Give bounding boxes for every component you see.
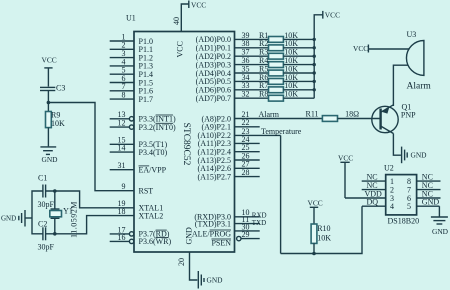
pin 10 P3.0 RXD — [194, 208, 266, 221]
svg-text:(A10)P2.2: (A10)P2.2 — [197, 131, 231, 140]
pin 5 P1.4 — [110, 66, 153, 79]
pin 32 P0.7 — [196, 90, 269, 103]
junction R10/DQ — [312, 252, 316, 256]
svg-text:C1: C1 — [38, 174, 47, 183]
pin 24 P2.3 — [198, 135, 260, 148]
wire C1 to XTAL1 pin 19 — [46, 191, 134, 208]
svg-text:(A15)P2.7: (A15)P2.7 — [197, 172, 231, 181]
ground symbol (pin 20) — [198, 271, 223, 289]
capacitor C3 — [40, 84, 65, 93]
svg-text:P3.4(T0): P3.4(T0) — [139, 148, 168, 157]
pin 1 U2 NC — [362, 173, 394, 186]
resistor R5 10K — [259, 64, 314, 76]
junction crystal top — [53, 189, 57, 193]
power VCC (U2 VDD) — [338, 154, 353, 199]
svg-text:R11: R11 — [306, 109, 319, 118]
svg-text:U3: U3 — [407, 30, 417, 39]
svg-text:21: 21 — [242, 110, 250, 119]
resistor R2 10K — [259, 39, 314, 51]
svg-text:GND: GND — [411, 151, 428, 160]
wire VCC to C3 — [47, 68, 49, 87]
svg-text:10K: 10K — [284, 90, 298, 99]
pin 36 P0.3 — [196, 56, 269, 69]
svg-text:DQ: DQ — [367, 198, 379, 207]
svg-text:RST: RST — [139, 187, 154, 196]
resistor R4 10K — [259, 56, 314, 68]
pin 29 PSEN — [211, 230, 259, 248]
pin 33 P0.6 — [196, 81, 269, 94]
svg-text:PSEN: PSEN — [211, 239, 231, 248]
svg-text:30pF: 30pF — [38, 200, 55, 209]
wire R9 to ground — [47, 128, 49, 147]
pin 19 XTAL1 — [118, 199, 164, 212]
wire U2 GND down — [438, 206, 440, 216]
svg-text:(A8)P2.0: (A8)P2.0 — [201, 114, 231, 123]
resistor R10 10K — [311, 224, 331, 243]
ground symbol (U2) — [431, 217, 449, 236]
wire VCC bus for R1-R8 — [313, 15, 323, 98]
pin 35 P0.4 — [196, 64, 269, 77]
svg-text:VCC: VCC — [42, 56, 57, 65]
svg-text:4: 4 — [390, 202, 394, 211]
pin 8 P1.7 — [110, 91, 153, 104]
wire C3 to node — [47, 91, 49, 112]
pin 15 P3.5(T1) — [110, 136, 168, 149]
capacitor C1 30pF — [38, 174, 55, 210]
svg-text:(AD7)P0.7: (AD7)P0.7 — [196, 94, 231, 103]
svg-text:(TXD)P3.1: (TXD)P3.1 — [195, 219, 231, 228]
buzzer U3 Alarm — [406, 30, 431, 92]
resistor R11 18ohm — [306, 109, 360, 121]
wire DQ bottom run — [281, 206, 362, 253]
pin 22 P2.1 — [201, 118, 259, 131]
svg-text:14: 14 — [118, 144, 126, 153]
svg-text:U2: U2 — [384, 164, 394, 173]
svg-text:30pF: 30pF — [38, 243, 55, 252]
svg-text:R8: R8 — [259, 90, 268, 99]
svg-text:P3.6(WR): P3.6(WR) — [139, 237, 172, 246]
pin 8 U2 NC — [407, 173, 441, 186]
pin 3 P1.2 — [110, 49, 153, 62]
wire VCC to buzzer — [368, 48, 408, 50]
pin 1 P1.0 — [110, 32, 153, 45]
wire node to RST pin 9 — [48, 103, 134, 191]
svg-text:VCC: VCC — [176, 41, 185, 57]
wire C2 to XTAL2 pin 18 — [46, 216, 134, 234]
wire VCC to R10 — [313, 207, 315, 224]
pin 34 P0.5 — [196, 73, 269, 86]
svg-text:40: 40 — [172, 17, 181, 25]
wire crystal leads — [54, 191, 56, 209]
wire rail tap to ground — [25, 217, 32, 219]
pin 9 RST — [122, 182, 154, 195]
pin 13 P3.3 INT1 — [110, 110, 176, 123]
pin 4 P1.3 — [110, 57, 153, 70]
svg-text:10K: 10K — [51, 119, 65, 128]
crystal Y1 11.0592M — [50, 201, 79, 238]
pin 37 P0.2 — [196, 48, 269, 61]
svg-text:8: 8 — [122, 91, 126, 100]
pin 26 P2.5 — [197, 151, 259, 164]
pin 2 U2 NC — [362, 181, 394, 194]
pin 21 P2.0 node Alarm — [201, 110, 322, 123]
svg-text:16: 16 — [118, 233, 126, 242]
power VCC (pull-up bus) — [323, 11, 340, 20]
junction node RST — [47, 101, 51, 105]
pin 25 P2.4 — [197, 143, 259, 156]
svg-text:TXD: TXD — [252, 219, 266, 227]
wire buzzer to Q1 emitter — [393, 65, 408, 106]
svg-text:VCC: VCC — [325, 11, 340, 20]
wire Temperature vertical — [280, 135, 282, 253]
power VCC (R10) — [308, 199, 323, 208]
svg-text:GND: GND — [1, 215, 16, 223]
svg-text:5: 5 — [407, 202, 411, 211]
svg-text:GND: GND — [422, 198, 440, 207]
IC U1 STC89C52 body — [126, 14, 235, 253]
svg-text:20: 20 — [177, 258, 186, 266]
svg-text:ALE/PROG: ALE/PROG — [192, 230, 231, 239]
pin 2 P1.1 — [110, 41, 153, 54]
transistor Q1 PNP — [372, 102, 416, 133]
svg-text:Alarm: Alarm — [407, 82, 432, 92]
pin 18 XTAL2 — [118, 207, 164, 220]
svg-text:VCC: VCC — [338, 154, 353, 163]
svg-text:11.0592M: 11.0592M — [70, 201, 79, 238]
resistor R1 10K — [259, 31, 314, 43]
wire R10 to DQ net — [313, 243, 315, 253]
svg-text:P3.2(INT0): P3.2(INT0) — [139, 123, 176, 132]
svg-text:18Ω: 18Ω — [345, 109, 359, 118]
svg-text:28: 28 — [242, 168, 250, 177]
pin 31 EA/VPP — [110, 161, 167, 174]
svg-text:R10: R10 — [317, 224, 330, 233]
pin 3 U2 VDD — [345, 189, 394, 202]
power VCC (buzzer) — [353, 44, 368, 53]
resistor R3 10K — [259, 48, 314, 60]
wire ground rail left of crystal — [32, 191, 43, 234]
svg-text:GND: GND — [207, 276, 224, 285]
svg-text:12: 12 — [118, 119, 126, 128]
resistor R8 10K — [259, 90, 314, 102]
svg-text:C2: C2 — [38, 220, 47, 229]
resistor R6 10K — [259, 73, 314, 85]
svg-text:29: 29 — [242, 230, 250, 239]
resistor R9 10K — [46, 111, 66, 129]
pin 16 P3.6 WR — [110, 233, 172, 246]
svg-text:EA/VPP: EA/VPP — [139, 166, 167, 175]
IC U2 DS18B20 body — [384, 164, 419, 226]
svg-text:DS18B20: DS18B20 — [388, 217, 420, 226]
pin 30 ALE/PROG — [192, 222, 260, 238]
pin 39 P0.0 — [196, 31, 269, 44]
ground symbol (Q1) — [402, 147, 428, 164]
pin 27 P2.6 — [197, 160, 259, 173]
svg-text:STC89C52: STC89C52 — [181, 123, 191, 166]
svg-text:XTAL2: XTAL2 — [139, 211, 164, 220]
svg-text:PNP: PNP — [401, 110, 416, 119]
power VCC (pin 40) — [189, 0, 206, 9]
pin 7 P1.6 — [110, 82, 153, 95]
pin 40 VCC wire — [172, 4, 189, 58]
pin 6 P1.5 — [110, 74, 153, 87]
svg-text:GND: GND — [42, 155, 59, 164]
power VCC (reset) — [42, 56, 57, 68]
wire R11 to Q1 base — [338, 118, 381, 120]
svg-text:32: 32 — [242, 90, 250, 99]
junction crystal bottom — [53, 232, 57, 236]
svg-text:GND: GND — [432, 227, 449, 236]
svg-text:U1: U1 — [126, 14, 136, 23]
ground symbol (crystal) — [1, 210, 25, 227]
svg-text:9: 9 — [122, 182, 126, 191]
capacitor C2 30pF — [38, 220, 55, 252]
ground symbol (R9) — [40, 147, 58, 164]
svg-text:C3: C3 — [56, 84, 65, 93]
svg-text:23: 23 — [242, 127, 250, 136]
pin 23 P2.2 node Temperature — [197, 127, 301, 140]
pin 6 U2 NC — [407, 189, 441, 202]
svg-text:Temperature: Temperature — [261, 127, 302, 136]
svg-text:VCC: VCC — [308, 199, 323, 208]
pin 12 P3.2 INT0 — [110, 119, 176, 132]
svg-text:VCC: VCC — [191, 0, 206, 9]
pin 28 P2.7 — [197, 168, 259, 181]
pin 20 GND wire — [177, 227, 197, 280]
pin 38 P0.1 — [196, 39, 269, 52]
svg-text:VCC: VCC — [353, 44, 368, 53]
svg-text:31: 31 — [118, 161, 126, 170]
resistor R7 10K — [259, 81, 314, 93]
pin 7 U2 NC — [407, 181, 441, 194]
pin 11 P3.1 TXD — [195, 215, 266, 228]
pin 14 P3.4(T0) — [110, 144, 168, 157]
pin 5 U2 GND — [407, 198, 439, 211]
pin 17 P3.7 RD — [110, 225, 170, 238]
wire Q1 collector to ground — [393, 134, 401, 156]
svg-text:10K: 10K — [317, 234, 331, 243]
pin 4 U2 DQ — [362, 198, 394, 211]
svg-text:P1.7: P1.7 — [139, 95, 153, 104]
svg-text:Alarm: Alarm — [259, 110, 280, 119]
